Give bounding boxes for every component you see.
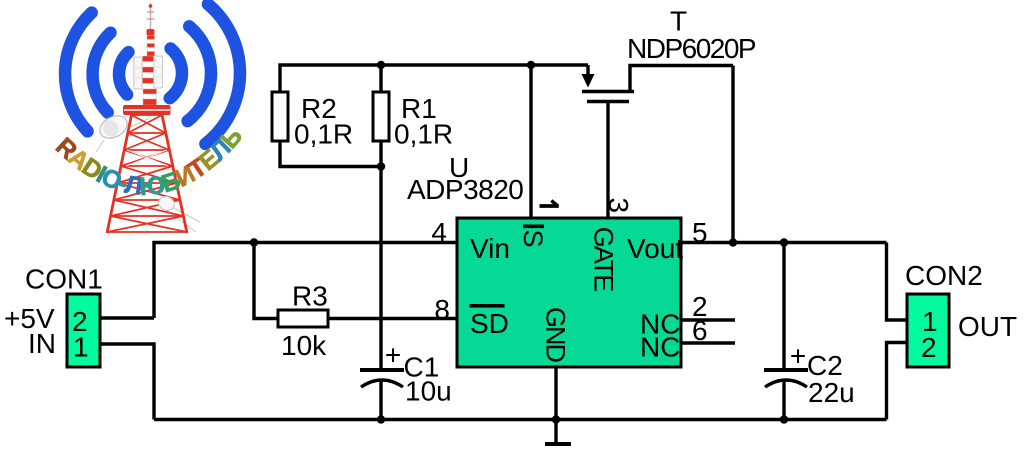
svg-text:NDP6020P: NDP6020P (627, 33, 756, 64)
svg-text:10u: 10u (405, 376, 452, 407)
connector CON1 (4, 264, 103, 368)
resistor R3 (278, 281, 328, 362)
wire: NC pin2 stub (681, 318, 735, 321)
svg-text:R3: R3 (292, 281, 328, 312)
wire: R1 top branch (379, 65, 382, 92)
svg-text:ADP3820: ADP3820 (407, 174, 523, 205)
wire: top sense bus (280, 65, 588, 92)
svg-text:GND: GND (541, 307, 571, 363)
logo: small dish (157, 194, 177, 212)
node: R1-R2 bottom junction (377, 162, 385, 170)
svg-text:GATE: GATE (589, 227, 619, 291)
pin label IS (inverted, rotated) (523, 225, 544, 229)
svg-text:+: + (385, 340, 401, 371)
connector CON2 (905, 260, 1017, 367)
svg-text:CON2: CON2 (905, 260, 983, 291)
pin number 1 (rotated) (540, 201, 559, 206)
op-amp U ADP3820 (IC body) (407, 152, 683, 367)
resistor R1 (373, 92, 453, 150)
wire: C2 branch vertical (782, 243, 785, 369)
ground symbol (545, 442, 571, 446)
wire: R3 to SD pin 8 (328, 317, 457, 320)
node: GND pin junction (552, 415, 560, 423)
svg-text:+: + (790, 341, 806, 372)
wire: gate branch (606, 102, 609, 220)
svg-text:2: 2 (921, 332, 937, 363)
svg-text:S: S (518, 230, 548, 247)
svg-text:CON1: CON1 (25, 264, 103, 295)
wire: Vout bus (681, 241, 887, 244)
logo: radio tower (96, 3, 200, 233)
svg-text:T: T (670, 6, 687, 37)
svg-text:NC: NC (640, 332, 680, 363)
wire: ground rail (154, 418, 887, 421)
capacitor C1 (360, 340, 452, 407)
node: R1 top junction (377, 61, 385, 69)
logo: radio waves right (170, 4, 240, 144)
node: C2 ground junction (780, 415, 788, 423)
svg-text:1: 1 (73, 332, 89, 363)
capacitor C2 (764, 341, 855, 409)
svg-text:Vin: Vin (470, 233, 510, 264)
svg-text:0,1R: 0,1R (394, 119, 453, 150)
node: C2 top junction (780, 238, 788, 246)
svg-text:OUT: OUT (958, 311, 1017, 342)
svg-text:10k: 10k (281, 330, 327, 361)
wire: CON1 pin2 stub (100, 316, 154, 319)
wire: CON2 pin2 to ground rail (887, 343, 908, 420)
node: R3 branch junction (250, 238, 258, 246)
wire: NC pin6 stub (681, 341, 735, 344)
wire: GND pin (554, 367, 557, 444)
svg-text:RADIO-ЛЮБИТЕЛЬ: RADIO-ЛЮБИТЕЛЬ (50, 122, 248, 201)
wire: R1 bottom / C1 branch vertical (379, 141, 382, 369)
svg-text:IN: IN (28, 328, 56, 359)
svg-text:3: 3 (603, 198, 634, 214)
logo: big satellite dish (96, 111, 131, 142)
svg-text:22u: 22u (808, 377, 855, 408)
wire: CON2 pin1 riser (887, 243, 908, 321)
svg-text:4: 4 (431, 217, 447, 248)
wire: R3 branch (254, 243, 278, 319)
transistor T NDP6020P (P-MOSFET) (582, 65, 734, 102)
wire: +5V bus to Vin (154, 243, 457, 319)
svg-text:Vout: Vout (627, 233, 683, 264)
wire: CON1 pin1 to ground rail (100, 344, 154, 420)
node: C1 ground junction (377, 415, 385, 423)
svg-text:0,1R: 0,1R (294, 119, 353, 150)
wire: IS pin branch (529, 65, 532, 219)
svg-text:8: 8 (434, 294, 450, 325)
wire: R2 bottom to loop (280, 141, 381, 167)
svg-text:SD: SD (470, 308, 509, 339)
wire: C1 bottom to ground rail (379, 379, 382, 420)
wire: drain riser to Vout bus (731, 66, 734, 243)
logo: radio waves left (65, 13, 128, 132)
resistor R2 (272, 92, 353, 150)
node: drain junction (729, 238, 737, 246)
node: IS branch junction (527, 61, 535, 69)
